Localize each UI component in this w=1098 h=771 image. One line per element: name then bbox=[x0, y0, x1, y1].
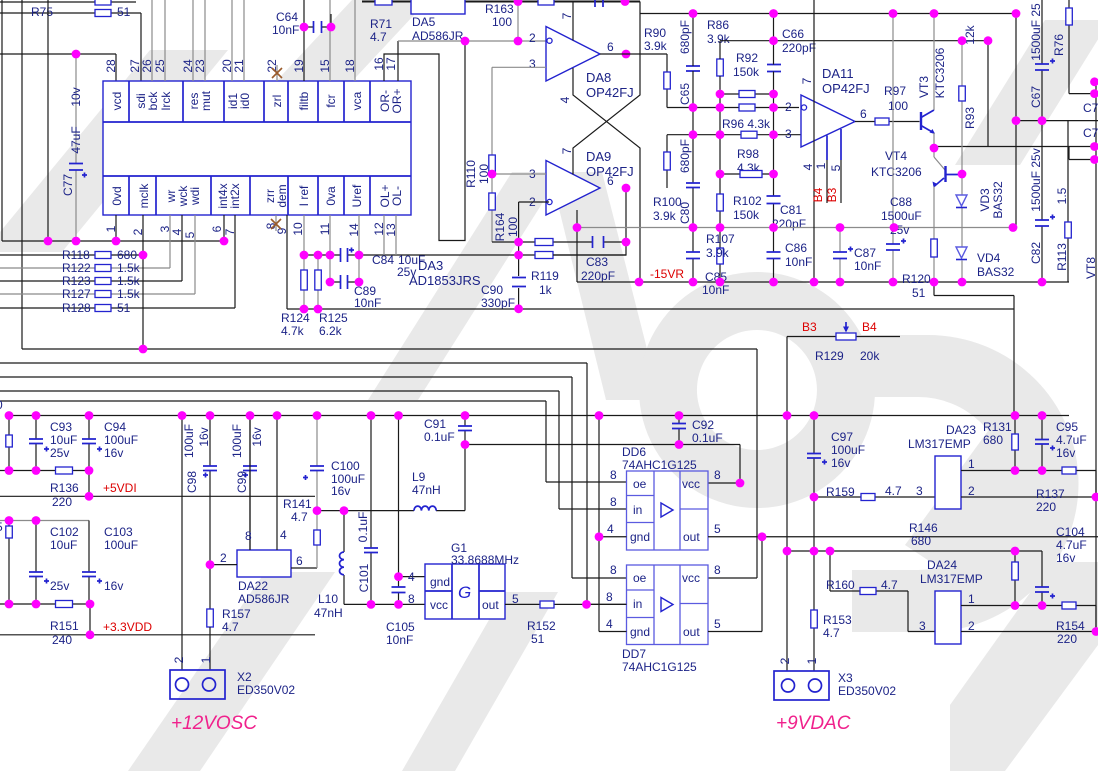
resistor R96 bbox=[693, 104, 799, 131]
svg-text:4.7k: 4.7k bbox=[281, 324, 305, 338]
svg-text:+5VDI: +5VDI bbox=[103, 481, 137, 495]
svg-text:6.2k: 6.2k bbox=[319, 324, 343, 338]
inductor L10 47nH bbox=[314, 511, 425, 620]
bus line L5 bbox=[0, 401, 627, 482]
svg-text:C101: C101 bbox=[357, 563, 371, 592]
svg-text:2: 2 bbox=[529, 31, 536, 45]
no-connect mark pin8 zrr bbox=[271, 215, 281, 231]
svg-text:VT3: VT3 bbox=[917, 76, 931, 98]
svg-text:out: out bbox=[683, 530, 700, 544]
junction dots right top bbox=[689, 9, 1047, 178]
svg-text:C88: C88 bbox=[890, 195, 912, 209]
IC DA24 LM317EMP bbox=[919, 558, 983, 644]
resistor left column lower bbox=[6, 521, 13, 605]
svg-text:R129: R129 bbox=[815, 349, 844, 363]
svg-text:1.5: 1.5 bbox=[1055, 187, 1069, 204]
resistor R75 bbox=[0, 5, 141, 81]
svg-text:AD1853JRS: AD1853JRS bbox=[409, 273, 481, 288]
svg-text:100uF: 100uF bbox=[182, 424, 196, 458]
svg-text:2: 2 bbox=[172, 656, 186, 663]
svg-text:1: 1 bbox=[805, 657, 819, 664]
wire row y520 bbox=[0, 520, 89, 522]
svg-text:8: 8 bbox=[408, 592, 415, 606]
svg-text:OR+: OR+ bbox=[390, 88, 404, 113]
svg-text:C93: C93 bbox=[50, 420, 72, 434]
svg-text:51: 51 bbox=[117, 301, 131, 315]
svg-text:3: 3 bbox=[916, 484, 923, 498]
resistor R152 51 bbox=[505, 601, 627, 646]
capacitor C67 1500uF 25v bbox=[1029, 0, 1055, 121]
svg-text:R76: R76 bbox=[1052, 34, 1066, 56]
svg-text:100: 100 bbox=[492, 15, 512, 29]
svg-text:R92: R92 bbox=[736, 51, 758, 65]
wire DA9 pin3 input bbox=[492, 173, 546, 175]
svg-text:1.5k: 1.5k bbox=[117, 261, 141, 275]
potentiometer R129 20k bbox=[787, 320, 900, 363]
wire out bus bbox=[708, 537, 1098, 632]
svg-text:+9VDAC: +9VDAC bbox=[776, 713, 851, 734]
svg-text:0.1uF: 0.1uF bbox=[424, 430, 455, 444]
resistor R86 bbox=[707, 18, 731, 46]
svg-text:DA8: DA8 bbox=[586, 70, 611, 85]
capacitor C86 bbox=[767, 241, 813, 269]
svg-text:DD7: DD7 bbox=[622, 647, 646, 661]
svg-text:10nF: 10nF bbox=[272, 23, 299, 37]
svg-text:X3: X3 bbox=[838, 671, 853, 685]
wire DD7 in net bbox=[587, 603, 627, 605]
resistor R92 bbox=[717, 51, 760, 79]
svg-text:C64: C64 bbox=[276, 10, 298, 24]
svg-text:16v: 16v bbox=[104, 446, 123, 460]
svg-text:1: 1 bbox=[814, 162, 828, 169]
svg-text:OP42FJ: OP42FJ bbox=[586, 164, 634, 179]
svg-text:10nF: 10nF bbox=[702, 283, 729, 297]
svg-text:1: 1 bbox=[968, 457, 975, 471]
wire top row 1 bbox=[0, 1, 136, 3]
transistor VT4 KTC3206 bbox=[871, 149, 962, 187]
diode VD4 BAS32 bbox=[956, 247, 1015, 282]
resistor R100 bbox=[653, 135, 682, 223]
wire left vertical C bbox=[47, 0, 49, 241]
resistor row y94 bbox=[720, 91, 774, 98]
capacitor C80 680pF bbox=[678, 139, 700, 224]
svg-text:1500uF 25: 1500uF 25 bbox=[1029, 3, 1043, 61]
svg-text:C81: C81 bbox=[780, 203, 802, 217]
svg-text:KTC3206: KTC3206 bbox=[933, 47, 947, 98]
svg-text:R90: R90 bbox=[644, 26, 666, 40]
svg-text:C97: C97 bbox=[831, 430, 853, 444]
svg-text:Uref: Uref bbox=[350, 184, 364, 207]
svg-text:R123: R123 bbox=[62, 274, 91, 288]
resistor R118 bbox=[0, 248, 143, 262]
svg-text:7: 7 bbox=[560, 147, 574, 154]
svg-text:R125: R125 bbox=[319, 311, 348, 325]
svg-text:C92: C92 bbox=[692, 418, 714, 432]
svg-text:R110: R110 bbox=[464, 160, 478, 188]
wire emitter follower out bbox=[934, 282, 1014, 309]
svg-text:4: 4 bbox=[558, 96, 572, 103]
IC DD7 74AHC1G125 bbox=[622, 565, 708, 674]
wire DA5 output net bbox=[398, 40, 546, 42]
svg-text:6: 6 bbox=[210, 225, 224, 232]
svg-text:3: 3 bbox=[529, 57, 536, 71]
svg-text:100uF: 100uF bbox=[230, 424, 244, 458]
connector X2 ED350V02 bbox=[170, 656, 295, 699]
svg-text:BAS32: BAS32 bbox=[991, 181, 1005, 219]
svg-text:220pF: 220pF bbox=[581, 269, 615, 283]
svg-text:16v: 16v bbox=[250, 427, 264, 446]
op-amp DA11 OP42FJ bbox=[785, 66, 870, 147]
svg-text:C65: C65 bbox=[678, 83, 692, 105]
wire crossed supply X bbox=[573, 2, 640, 283]
svg-text:100: 100 bbox=[506, 217, 520, 237]
connector X3 ED350V02 bbox=[774, 657, 896, 700]
svg-text:680pF: 680pF bbox=[678, 139, 692, 173]
svg-text:100: 100 bbox=[888, 99, 908, 113]
capacitor C98 100uF 16v bbox=[182, 416, 217, 610]
resistor R119 lower bbox=[304, 252, 626, 298]
svg-text:0: 0 bbox=[0, 398, 3, 412]
svg-text:KTC3206: KTC3206 bbox=[871, 165, 922, 179]
svg-text:OP42FJ: OP42FJ bbox=[586, 85, 634, 100]
diode VD3 BAS32 bbox=[956, 181, 1005, 247]
svg-text:4.7: 4.7 bbox=[823, 626, 840, 640]
svg-text:10uF: 10uF bbox=[50, 433, 77, 447]
wire R92 top net bbox=[720, 40, 988, 42]
svg-text:C102: C102 bbox=[50, 525, 79, 539]
svg-text:4: 4 bbox=[801, 163, 815, 170]
resistor R146 680 bbox=[909, 521, 1018, 606]
svg-text:1k: 1k bbox=[539, 283, 553, 297]
svg-text:47uF: 47uF bbox=[69, 126, 83, 153]
wire left vertical A bbox=[1, 0, 3, 241]
svg-text:8: 8 bbox=[610, 563, 617, 577]
capacitor C83 bbox=[553, 188, 626, 283]
capacitor C104 4.7uF 16v bbox=[1035, 525, 1087, 606]
svg-text:R160: R160 bbox=[826, 578, 855, 592]
svg-text:ED350V02: ED350V02 bbox=[237, 683, 295, 697]
capacitor C81 bbox=[767, 196, 807, 231]
svg-text:4: 4 bbox=[280, 528, 287, 542]
svg-text:1500uF 25v: 1500uF 25v bbox=[1029, 148, 1043, 211]
svg-text:C94: C94 bbox=[104, 420, 126, 434]
svg-text:4.7: 4.7 bbox=[291, 510, 308, 524]
svg-text:lrck: lrck bbox=[159, 91, 173, 111]
capacitor C64 bbox=[272, 0, 331, 81]
capacitor on rail bbox=[595, 0, 603, 7]
capacitor C65 680pF bbox=[678, 20, 700, 105]
pin numbers DA3 bottom bbox=[104, 222, 398, 238]
svg-text:X2: X2 bbox=[237, 670, 252, 684]
svg-text:DA5: DA5 bbox=[412, 15, 436, 29]
svg-text:R107: R107 bbox=[706, 232, 735, 246]
svg-text:25v: 25v bbox=[50, 446, 69, 460]
svg-text:out: out bbox=[482, 598, 499, 612]
svg-text:C90: C90 bbox=[481, 283, 503, 297]
wire pin10 pin11 pin14 pin12 pin13 stubs bbox=[304, 215, 396, 282]
svg-text:DD6: DD6 bbox=[622, 445, 646, 459]
svg-text:16v: 16v bbox=[1056, 446, 1075, 460]
svg-text:3.9k: 3.9k bbox=[653, 209, 677, 223]
svg-text:R136: R136 bbox=[50, 481, 79, 495]
capacitor C102 bbox=[29, 521, 79, 605]
resistor R97 bbox=[855, 84, 920, 125]
svg-text:150k: 150k bbox=[733, 208, 760, 222]
svg-text:220: 220 bbox=[1057, 632, 1077, 646]
svg-text:R119: R119 bbox=[531, 269, 559, 283]
rail y309 bbox=[287, 309, 1014, 416]
svg-text:DA9: DA9 bbox=[586, 149, 611, 164]
svg-text:8: 8 bbox=[606, 590, 613, 604]
svg-text:BAS32: BAS32 bbox=[977, 265, 1015, 279]
transistor VT3 KTC3206 bbox=[917, 47, 947, 134]
svg-text:51: 51 bbox=[117, 5, 131, 19]
svg-text:8: 8 bbox=[610, 468, 617, 482]
svg-text:1: 1 bbox=[968, 592, 975, 606]
svg-text:gnd: gnd bbox=[630, 530, 650, 544]
IC DA5 AD586JR bbox=[411, 0, 465, 43]
svg-text:R122: R122 bbox=[62, 261, 91, 275]
svg-text:R128: R128 bbox=[62, 301, 91, 315]
junction dots mid bbox=[300, 0, 631, 313]
resistor R74 (cut) bbox=[95, 0, 111, 5]
oscillator G1 33.8688MHz bbox=[408, 541, 519, 619]
capacitor C89 bbox=[330, 275, 381, 310]
svg-text:R154: R154 bbox=[1056, 619, 1085, 633]
svg-text:R163: R163 bbox=[485, 2, 514, 16]
wire R163 stub bbox=[517, 2, 519, 42]
resistor R128 bbox=[0, 215, 235, 315]
wire DA9 pin2 net bbox=[519, 202, 549, 309]
svg-text:100uF: 100uF bbox=[831, 443, 865, 457]
wire R153 column bbox=[813, 497, 815, 671]
wire X2 pin2 column bbox=[181, 416, 183, 671]
svg-text:16v: 16v bbox=[197, 427, 211, 446]
svg-text:R157: R157 bbox=[222, 607, 251, 621]
rail -15VR y282 bbox=[577, 281, 1069, 283]
svg-text:17: 17 bbox=[384, 57, 398, 71]
wire C91 C92 net bbox=[465, 445, 740, 511]
svg-text:C82: C82 bbox=[1029, 242, 1043, 264]
svg-text:int2x: int2x bbox=[228, 183, 242, 208]
wire pin9 stub bbox=[286, 215, 288, 309]
bus y241 bbox=[2, 215, 224, 241]
svg-text:8: 8 bbox=[245, 529, 252, 543]
svg-text:C86: C86 bbox=[785, 241, 807, 255]
wire column x773.5 bbox=[773, 14, 775, 283]
svg-text:C98: C98 bbox=[185, 471, 199, 493]
svg-text:vca: vca bbox=[350, 91, 364, 110]
svg-text:mclk: mclk bbox=[137, 183, 151, 209]
capacitor C95 4.7uF 16v bbox=[1035, 416, 1087, 471]
svg-text:74AHC1G125: 74AHC1G125 bbox=[622, 458, 697, 472]
svg-text:220: 220 bbox=[52, 495, 72, 509]
resistor R125 bbox=[315, 255, 348, 338]
svg-text:-15VR: -15VR bbox=[650, 267, 684, 281]
svg-text:R98: R98 bbox=[737, 147, 759, 161]
svg-text:mut: mut bbox=[199, 90, 213, 111]
svg-text:680: 680 bbox=[117, 248, 137, 262]
svg-text:4: 4 bbox=[408, 570, 415, 584]
svg-text:R75: R75 bbox=[31, 5, 53, 19]
wire column x693 bbox=[692, 14, 694, 283]
svg-text:4.7uF: 4.7uF bbox=[1056, 433, 1087, 447]
svg-text:8: 8 bbox=[610, 495, 617, 509]
resistor R137 220 bbox=[1036, 467, 1076, 514]
svg-text:VD4: VD4 bbox=[977, 251, 1001, 265]
svg-text:R102: R102 bbox=[733, 194, 762, 208]
svg-text:R86: R86 bbox=[707, 18, 729, 32]
svg-text:6: 6 bbox=[607, 40, 614, 54]
svg-text:3.9k: 3.9k bbox=[644, 39, 668, 53]
svg-text:10nF: 10nF bbox=[354, 296, 381, 310]
resistor R120 bbox=[902, 239, 937, 300]
IC DA3 AD1853JRS bbox=[103, 81, 481, 288]
capacitor C103 bbox=[82, 521, 138, 605]
svg-text:+3.3VDD: +3.3VDD bbox=[103, 620, 152, 634]
svg-text:R137: R137 bbox=[1036, 487, 1065, 501]
capacitor C84 bbox=[341, 248, 426, 280]
svg-text:fcr: fcr bbox=[324, 94, 338, 107]
svg-text:1.5k: 1.5k bbox=[117, 287, 141, 301]
svg-text:4.7: 4.7 bbox=[885, 484, 902, 498]
svg-text:R152: R152 bbox=[527, 619, 556, 633]
svg-text:I ref: I ref bbox=[297, 185, 311, 206]
svg-text:C77: C77 bbox=[61, 174, 75, 196]
wire y147 to R76 bbox=[934, 41, 1098, 160]
svg-text:3: 3 bbox=[919, 619, 926, 633]
wire pin17 to DA5 out bbox=[397, 41, 399, 81]
svg-text:VD3: VD3 bbox=[978, 188, 992, 212]
wire left vertical B bbox=[21, 0, 23, 349]
svg-text:16v: 16v bbox=[1056, 551, 1075, 565]
wire column x720 bbox=[719, 41, 721, 282]
wire DA11 supply column bbox=[813, 0, 815, 282]
resistor R154 220 bbox=[1056, 602, 1085, 646]
svg-text:gnd: gnd bbox=[630, 625, 650, 639]
svg-text:0.1uF: 0.1uF bbox=[692, 431, 723, 445]
svg-text:DA23: DA23 bbox=[946, 423, 976, 437]
wire x1016 column bbox=[1015, 14, 1017, 228]
bus line L4 bbox=[0, 391, 627, 509]
resistor R71 bbox=[370, 0, 392, 44]
svg-text:R97: R97 bbox=[884, 84, 906, 98]
svg-text:R153: R153 bbox=[823, 613, 852, 627]
svg-text:filtb: filtb bbox=[297, 91, 311, 110]
svg-text:C105: C105 bbox=[386, 620, 415, 634]
resistor R136 bbox=[0, 467, 89, 509]
svg-text:20k: 20k bbox=[860, 349, 880, 363]
svg-text:zrl: zrl bbox=[270, 95, 284, 108]
wire DA8 pin3 input bbox=[492, 66, 546, 68]
svg-text:out: out bbox=[683, 625, 700, 639]
svg-text:47nH: 47nH bbox=[314, 606, 343, 620]
svg-text:4: 4 bbox=[607, 522, 614, 536]
svg-text:10v: 10v bbox=[69, 87, 83, 106]
svg-text:0.1uF: 0.1uF bbox=[356, 512, 370, 543]
resistor R124 bbox=[281, 255, 310, 338]
bus line L1 bbox=[22, 349, 757, 578]
svg-text:100uF: 100uF bbox=[104, 433, 138, 447]
svg-text:6: 6 bbox=[296, 554, 303, 568]
svg-text:330pF: 330pF bbox=[481, 296, 515, 310]
svg-text:8: 8 bbox=[714, 468, 721, 482]
capacitor C101 0.1uF bbox=[356, 416, 378, 605]
svg-text:47nH: 47nH bbox=[412, 483, 441, 497]
capacitor C91 0.1uF bbox=[424, 416, 472, 445]
svg-text:R127: R127 bbox=[62, 287, 91, 301]
capacitor C105 bbox=[386, 416, 425, 648]
svg-text:R118: R118 bbox=[62, 248, 90, 262]
svg-text:R93: R93 bbox=[963, 107, 977, 129]
capacitor C87 bbox=[833, 228, 881, 283]
wire DA23 pin1 net bbox=[961, 471, 1096, 498]
svg-text:0vd: 0vd bbox=[110, 186, 124, 205]
svg-text:C67: C67 bbox=[1029, 86, 1043, 108]
wire VT3 emitter node bbox=[933, 133, 935, 157]
svg-text:220pF: 220pF bbox=[782, 41, 816, 55]
svg-text:C104: C104 bbox=[1056, 525, 1085, 539]
resistor R157 bbox=[207, 607, 251, 670]
svg-text:3.9k: 3.9k bbox=[707, 32, 731, 46]
resistor R90 bbox=[600, 26, 693, 108]
svg-text:R124: R124 bbox=[281, 311, 310, 325]
rail y227.5 gray bbox=[577, 227, 1016, 229]
resistor R163 bbox=[485, 0, 554, 29]
svg-text:R96 4.3k: R96 4.3k bbox=[722, 117, 771, 131]
svg-text:10nF: 10nF bbox=[386, 633, 413, 647]
svg-text:R159: R159 bbox=[826, 485, 855, 499]
svg-text:4.7uF: 4.7uF bbox=[1056, 538, 1087, 552]
capacitor C77 bbox=[61, 54, 87, 241]
svg-text:B3: B3 bbox=[825, 187, 839, 202]
svg-text:R141: R141 bbox=[283, 497, 312, 511]
svg-text:AD586JR: AD586JR bbox=[238, 592, 290, 606]
svg-text:4.7: 4.7 bbox=[881, 578, 898, 592]
svg-text:C83: C83 bbox=[586, 255, 608, 269]
svg-text:DA11: DA11 bbox=[822, 66, 854, 81]
resistor left column upper bbox=[6, 416, 13, 471]
svg-text:5: 5 bbox=[714, 522, 721, 536]
resistor R160 bbox=[826, 551, 935, 632]
power rail top bbox=[362, 1, 640, 3]
svg-text:B3: B3 bbox=[802, 320, 817, 334]
svg-text:5: 5 bbox=[829, 164, 843, 171]
junction dots bottom left bbox=[5, 440, 591, 639]
svg-text:3: 3 bbox=[785, 127, 792, 141]
pin numbers DA3 top bbox=[104, 57, 398, 73]
svg-text:B4: B4 bbox=[811, 187, 825, 202]
svg-text:ED350V02: ED350V02 bbox=[838, 684, 896, 698]
svg-text:L10: L10 bbox=[318, 592, 338, 606]
svg-text:4.7: 4.7 bbox=[222, 620, 239, 634]
resistor R107 bbox=[706, 232, 735, 264]
svg-text:R164: R164 bbox=[493, 212, 507, 241]
svg-text:8: 8 bbox=[714, 563, 721, 577]
svg-text:R120: R120 bbox=[902, 272, 931, 286]
svg-text:R131: R131 bbox=[983, 420, 1012, 434]
svg-text:R71: R71 bbox=[370, 17, 392, 31]
svg-text:oe: oe bbox=[633, 477, 647, 491]
svg-text:2: 2 bbox=[220, 551, 227, 565]
resistor row y174 bbox=[720, 171, 774, 178]
svg-text:2: 2 bbox=[968, 484, 975, 498]
bus line L2 bbox=[0, 363, 587, 604]
resistor R153 bbox=[811, 610, 852, 640]
resistor R76 bbox=[1052, 0, 1098, 94]
resistor R110 bbox=[464, 67, 495, 188]
svg-text:+12VOSC: +12VOSC bbox=[171, 713, 257, 734]
